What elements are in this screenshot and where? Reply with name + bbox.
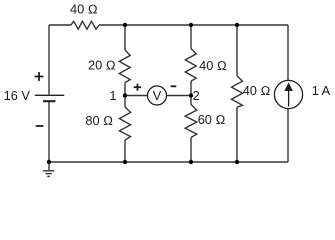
svg-text:2: 2 [193,88,200,103]
svg-text:V: V [153,88,162,103]
svg-text:80 Ω: 80 Ω [85,113,113,128]
svg-text:40 Ω: 40 Ω [199,58,227,73]
svg-text:60 Ω: 60 Ω [198,112,226,127]
svg-text:16 V: 16 V [4,88,31,103]
svg-text:1 A: 1 A [312,83,331,98]
svg-text:20 Ω: 20 Ω [88,57,116,72]
svg-text:40 Ω: 40 Ω [70,1,98,16]
svg-text:40 Ω: 40 Ω [243,83,271,98]
svg-text:1: 1 [109,88,116,103]
